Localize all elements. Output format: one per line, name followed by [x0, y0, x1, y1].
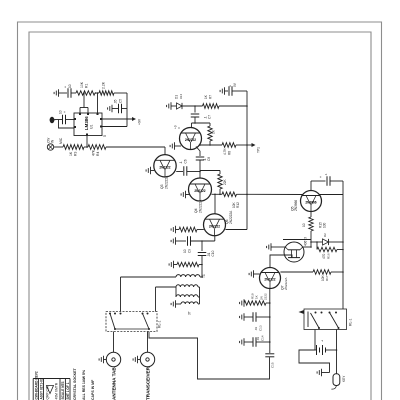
wire — [155, 287, 157, 312]
wire — [280, 271, 313, 273]
ground — [240, 313, 244, 321]
svg-text:D2: D2 — [323, 233, 327, 237]
ground — [267, 243, 271, 251]
capacitor C6 — [179, 159, 188, 176]
svg-text:C15: C15 — [271, 362, 275, 368]
label CW IN — [47, 138, 55, 143]
relay RL-1B — [304, 309, 347, 330]
ground — [171, 226, 175, 234]
wire — [237, 194, 303, 196]
capacitor C14 — [253, 335, 265, 347]
svg-text:10: 10 — [59, 110, 63, 114]
label RL-1B — [349, 319, 353, 326]
connector J3 transceiver — [140, 352, 154, 366]
svg-text:T1: T1 — [202, 274, 206, 278]
svg-text:R3: R3 — [74, 152, 78, 156]
label T2 — [188, 311, 192, 315]
wire — [244, 341, 253, 343]
resistor R3 — [63, 145, 84, 156]
capacitor C8 — [196, 157, 211, 161]
svg-text:RL-1: RL-1 — [158, 321, 162, 328]
wire — [299, 350, 330, 373]
svg-text:2222: 2222 — [264, 293, 268, 300]
wire — [191, 123, 193, 128]
svg-text:1K: 1K — [69, 151, 73, 156]
wire — [331, 271, 344, 273]
wire — [156, 286, 177, 288]
wire — [330, 180, 343, 182]
svg-text:U1: U1 — [90, 125, 94, 129]
svg-text:+9V: +9V — [138, 118, 142, 125]
svg-text:Q3: Q3 — [160, 184, 164, 189]
wire — [113, 332, 115, 353]
svg-text:2N2222A: 2N2222A — [165, 175, 169, 189]
svg-text:40673: 40673 — [304, 237, 308, 246]
svg-text:LM386: LM386 — [84, 116, 89, 130]
ground — [249, 270, 253, 278]
resistor R17 — [313, 270, 331, 281]
label M1 — [342, 375, 346, 382]
ground — [167, 102, 171, 110]
svg-text:2N2222: 2N2222 — [209, 224, 220, 228]
ground — [240, 299, 244, 307]
terminal CW IN — [47, 144, 57, 150]
resistor R2 — [99, 81, 114, 95]
wire — [310, 212, 312, 218]
wire — [97, 92, 99, 113]
wire — [59, 92, 68, 94]
svg-text:2.2K: 2.2K — [102, 81, 106, 89]
svg-text:ANTENNA TAB: ANTENNA TAB — [112, 367, 117, 400]
wire — [197, 229, 204, 231]
svg-text:10: 10 — [183, 249, 187, 253]
wire — [114, 92, 127, 94]
svg-text:4.7K: 4.7K — [223, 148, 227, 155]
capacitor C13 — [253, 312, 263, 331]
ground — [170, 142, 174, 150]
ground — [317, 369, 321, 377]
capacitor C16 — [324, 173, 330, 186]
wire — [254, 273, 260, 275]
wire — [122, 108, 127, 110]
capacitor C7 — [191, 114, 212, 119]
wire — [186, 194, 190, 196]
svg-text:+: + — [64, 86, 68, 88]
transistor Q5 — [301, 191, 322, 212]
wire — [316, 241, 318, 249]
label 40673 — [304, 237, 308, 246]
svg-text:TRANSCEIVER: TRANSCEIVER — [146, 366, 151, 400]
transistor Q4 — [189, 178, 212, 201]
relay contacts RL-1A — [106, 312, 157, 332]
transistor Q6 — [204, 214, 226, 236]
svg-text:3T: 3T — [188, 311, 192, 315]
svg-text:R1: R1 — [85, 84, 89, 88]
wire — [271, 246, 285, 248]
svg-text:2N2222: 2N2222 — [264, 278, 275, 282]
svg-text:5: 5 — [103, 135, 107, 137]
svg-text:R12: R12 — [236, 202, 240, 208]
svg-text:Q4: Q4 — [194, 208, 198, 213]
wire — [270, 255, 292, 268]
resistor R19 — [244, 293, 266, 305]
resistor R7 — [203, 94, 219, 108]
svg-text:C6: C6 — [184, 159, 188, 163]
svg-text:.1: .1 — [324, 173, 328, 176]
diode D2 — [323, 233, 329, 245]
svg-text:+: + — [319, 176, 323, 178]
svg-text:ALL RES 1/4W 5%: ALL RES 1/4W 5% — [82, 369, 86, 400]
wire — [120, 277, 122, 312]
wire — [95, 92, 99, 94]
label pin 5 — [103, 135, 107, 137]
svg-text:10: 10 — [302, 223, 306, 227]
wire emitter Q2 — [196, 147, 200, 157]
wire — [171, 105, 177, 107]
wire — [57, 146, 63, 148]
wire — [121, 276, 177, 278]
svg-text:C9: C9 — [188, 249, 192, 253]
wire — [236, 144, 252, 146]
svg-text:C5: C5 — [119, 99, 123, 103]
label Q5 — [291, 200, 299, 211]
wire — [326, 349, 338, 351]
wire — [59, 120, 75, 129]
svg-text:914: 914 — [179, 94, 183, 99]
label ANTENNA TAB — [112, 367, 117, 400]
svg-text:V: V — [177, 127, 181, 129]
transformer T1 winding 2 — [176, 285, 198, 287]
wire — [194, 118, 196, 124]
wire — [104, 359, 107, 361]
svg-text:2N3866: 2N3866 — [294, 200, 298, 211]
svg-text:47K: 47K — [92, 149, 96, 156]
ground — [171, 300, 175, 308]
wire — [303, 246, 311, 248]
resistor R9 — [218, 171, 227, 195]
wire — [198, 287, 200, 304]
ground — [108, 105, 112, 113]
wire — [174, 264, 178, 266]
label Q3 — [160, 175, 169, 189]
ground — [54, 89, 58, 97]
battery B1 — [317, 339, 326, 355]
wire — [175, 287, 177, 297]
svg-text:2N2222A: 2N2222A — [229, 210, 233, 224]
wire — [310, 231, 312, 248]
svg-text:2N2222: 2N2222 — [194, 189, 205, 193]
label Q7 — [281, 277, 289, 290]
wire — [225, 90, 229, 92]
wire — [151, 170, 155, 172]
diode D1 — [175, 94, 184, 109]
svg-text:CRYSTAL SOCKET: CRYSTAL SOCKET — [73, 368, 77, 400]
wire — [176, 303, 182, 305]
ground — [220, 82, 237, 95]
svg-text:.01: .01 — [256, 336, 260, 341]
microphone input terminal J1 — [50, 117, 56, 123]
title block — [33, 371, 70, 400]
wire — [199, 144, 222, 146]
svg-text:C13: C13 — [259, 325, 263, 331]
svg-text:100: 100 — [323, 222, 327, 228]
wire — [192, 122, 211, 124]
svg-text:C8: C8 — [207, 157, 211, 161]
capacitor C10 — [198, 250, 215, 257]
wire — [201, 256, 203, 278]
capacitor C5 — [114, 99, 123, 114]
wire — [269, 289, 271, 354]
wire hook — [331, 386, 336, 390]
transistor U2 40673 — [284, 242, 304, 262]
svg-text:470: 470 — [322, 253, 326, 259]
label Q4 — [194, 199, 203, 213]
svg-text:C7: C7 — [208, 115, 212, 119]
wire — [56, 119, 62, 121]
svg-text:2N2222A: 2N2222A — [199, 199, 203, 213]
transistor Q3 — [154, 155, 176, 177]
wire — [336, 330, 338, 374]
svg-text:10: 10 — [68, 84, 72, 88]
transistor Q7 — [260, 268, 281, 289]
ground — [133, 356, 137, 364]
wire — [199, 264, 203, 266]
svg-text:10K: 10K — [80, 81, 84, 88]
svg-text:SCALE NTS: SCALE NTS — [61, 381, 65, 399]
svg-text:R7: R7 — [209, 95, 213, 99]
label Q6 — [225, 210, 233, 224]
node A — [95, 92, 97, 94]
key jack M1 — [333, 374, 340, 386]
svg-text:.05: .05 — [114, 99, 118, 104]
wire — [106, 146, 165, 148]
label T1 — [202, 274, 206, 278]
resistor R11 — [177, 262, 199, 266]
ground — [181, 191, 185, 199]
wire — [112, 108, 119, 110]
wire — [84, 146, 88, 148]
ground — [99, 356, 103, 364]
wire — [214, 236, 216, 241]
svg-text:C10: C10 — [211, 250, 215, 256]
svg-text:KEY: KEY — [342, 375, 346, 382]
wire — [226, 229, 248, 231]
svg-text:.01: .01 — [254, 326, 258, 331]
svg-text:+: + — [63, 111, 67, 113]
svg-text:SHT 1 OF 1: SHT 1 OF 1 — [66, 382, 70, 399]
inductor L1 — [176, 275, 203, 278]
wire — [310, 181, 312, 191]
wire — [80, 92, 88, 113]
capacitor C1 — [59, 110, 68, 124]
wire — [311, 241, 323, 243]
svg-text:R4: R4 — [96, 152, 100, 156]
svg-text:R17: R17 — [325, 275, 329, 281]
resistor R4 — [88, 145, 106, 156]
svg-text:2N3866: 2N3866 — [305, 201, 316, 205]
transistor Q2 — [180, 128, 202, 150]
wire — [337, 249, 344, 251]
resistor R10 — [179, 227, 197, 232]
wire — [311, 176, 326, 181]
svg-text:R8: R8 — [228, 151, 232, 155]
wire — [201, 241, 203, 251]
wire — [138, 359, 141, 361]
wire — [315, 349, 317, 351]
svg-text:22K: 22K — [223, 178, 227, 185]
svg-text:C14: C14 — [261, 335, 265, 341]
resistor R8 — [222, 143, 236, 155]
svg-text:ASSY 0271-03: ASSY 0271-03 — [40, 378, 44, 399]
wire — [219, 105, 248, 107]
wire — [191, 240, 215, 242]
wire — [256, 341, 271, 343]
wire — [86, 136, 88, 148]
wire — [66, 119, 75, 121]
wire — [194, 105, 196, 112]
wire row — [212, 194, 223, 196]
svg-text:.1: .1 — [179, 161, 183, 164]
ground — [171, 237, 175, 245]
wire — [283, 239, 311, 241]
wire — [164, 147, 166, 155]
resistor R12 — [222, 192, 240, 208]
wire — [319, 194, 343, 196]
power +9V arrow — [132, 117, 142, 125]
wire — [176, 229, 180, 231]
wire — [71, 92, 76, 94]
svg-text:40M XMTR: 40M XMTR — [55, 382, 59, 399]
svg-text:CAPS IN MF: CAPS IN MF — [91, 379, 95, 400]
svg-text:MIC: MIC — [59, 137, 63, 144]
ground — [169, 261, 173, 269]
title block notes — [73, 368, 95, 400]
resistor R15 — [302, 217, 327, 231]
label +9 — [174, 125, 182, 129]
svg-text:CWI-BOARD REV2: CWI-BOARD REV2 — [35, 371, 39, 399]
wire — [176, 171, 183, 173]
svg-text:2N2222: 2N2222 — [159, 165, 170, 169]
svg-text:1K: 1K — [255, 295, 259, 299]
connector J2 antenna — [106, 352, 120, 366]
wire — [322, 372, 330, 374]
transformer T1 winding 3 — [176, 295, 198, 297]
label Q7b — [260, 293, 268, 300]
transformer T2 secondary — [181, 302, 198, 304]
capacitor C15 — [265, 354, 274, 368]
wire — [214, 194, 216, 214]
svg-text:R16: R16 — [327, 253, 331, 259]
wire — [187, 171, 201, 173]
capacitor C9 — [183, 236, 192, 253]
capacitor C2 — [64, 84, 73, 98]
wire — [147, 332, 149, 353]
wire — [200, 170, 220, 172]
svg-text:2N2222A: 2N2222A — [284, 277, 288, 290]
relay coil arrow — [299, 310, 305, 314]
wire — [176, 240, 187, 242]
wire — [199, 160, 201, 178]
label TRANSCEIVER — [146, 366, 151, 400]
svg-text:TP1: TP1 — [257, 147, 261, 153]
wire — [244, 316, 253, 318]
svg-text:2N2222: 2N2222 — [185, 138, 196, 142]
wire — [232, 90, 247, 92]
ground — [146, 167, 150, 175]
ground — [240, 338, 244, 346]
label RL-1 — [158, 321, 162, 328]
wire — [149, 332, 270, 380]
wire — [266, 302, 271, 304]
resistor R1 — [76, 81, 95, 95]
wire — [126, 93, 128, 127]
op-amp U1 LM386 — [74, 113, 102, 136]
wire — [102, 126, 127, 128]
wire — [256, 316, 271, 318]
wire — [182, 105, 203, 107]
wire — [329, 241, 344, 243]
capacitor C12 — [229, 86, 232, 96]
wire — [314, 330, 316, 351]
wire — [102, 118, 132, 120]
wire — [175, 145, 182, 147]
border frame inner — [29, 32, 371, 400]
resistor R6 — [208, 123, 216, 145]
resistor R16 — [317, 247, 337, 259]
supply rail right — [342, 181, 344, 309]
svg-text:D1: D1 — [175, 95, 179, 99]
test point arrow — [252, 143, 261, 153]
supply rail — [246, 91, 248, 230]
svg-text:RL-1: RL-1 — [349, 319, 353, 326]
label MIC — [59, 137, 63, 144]
